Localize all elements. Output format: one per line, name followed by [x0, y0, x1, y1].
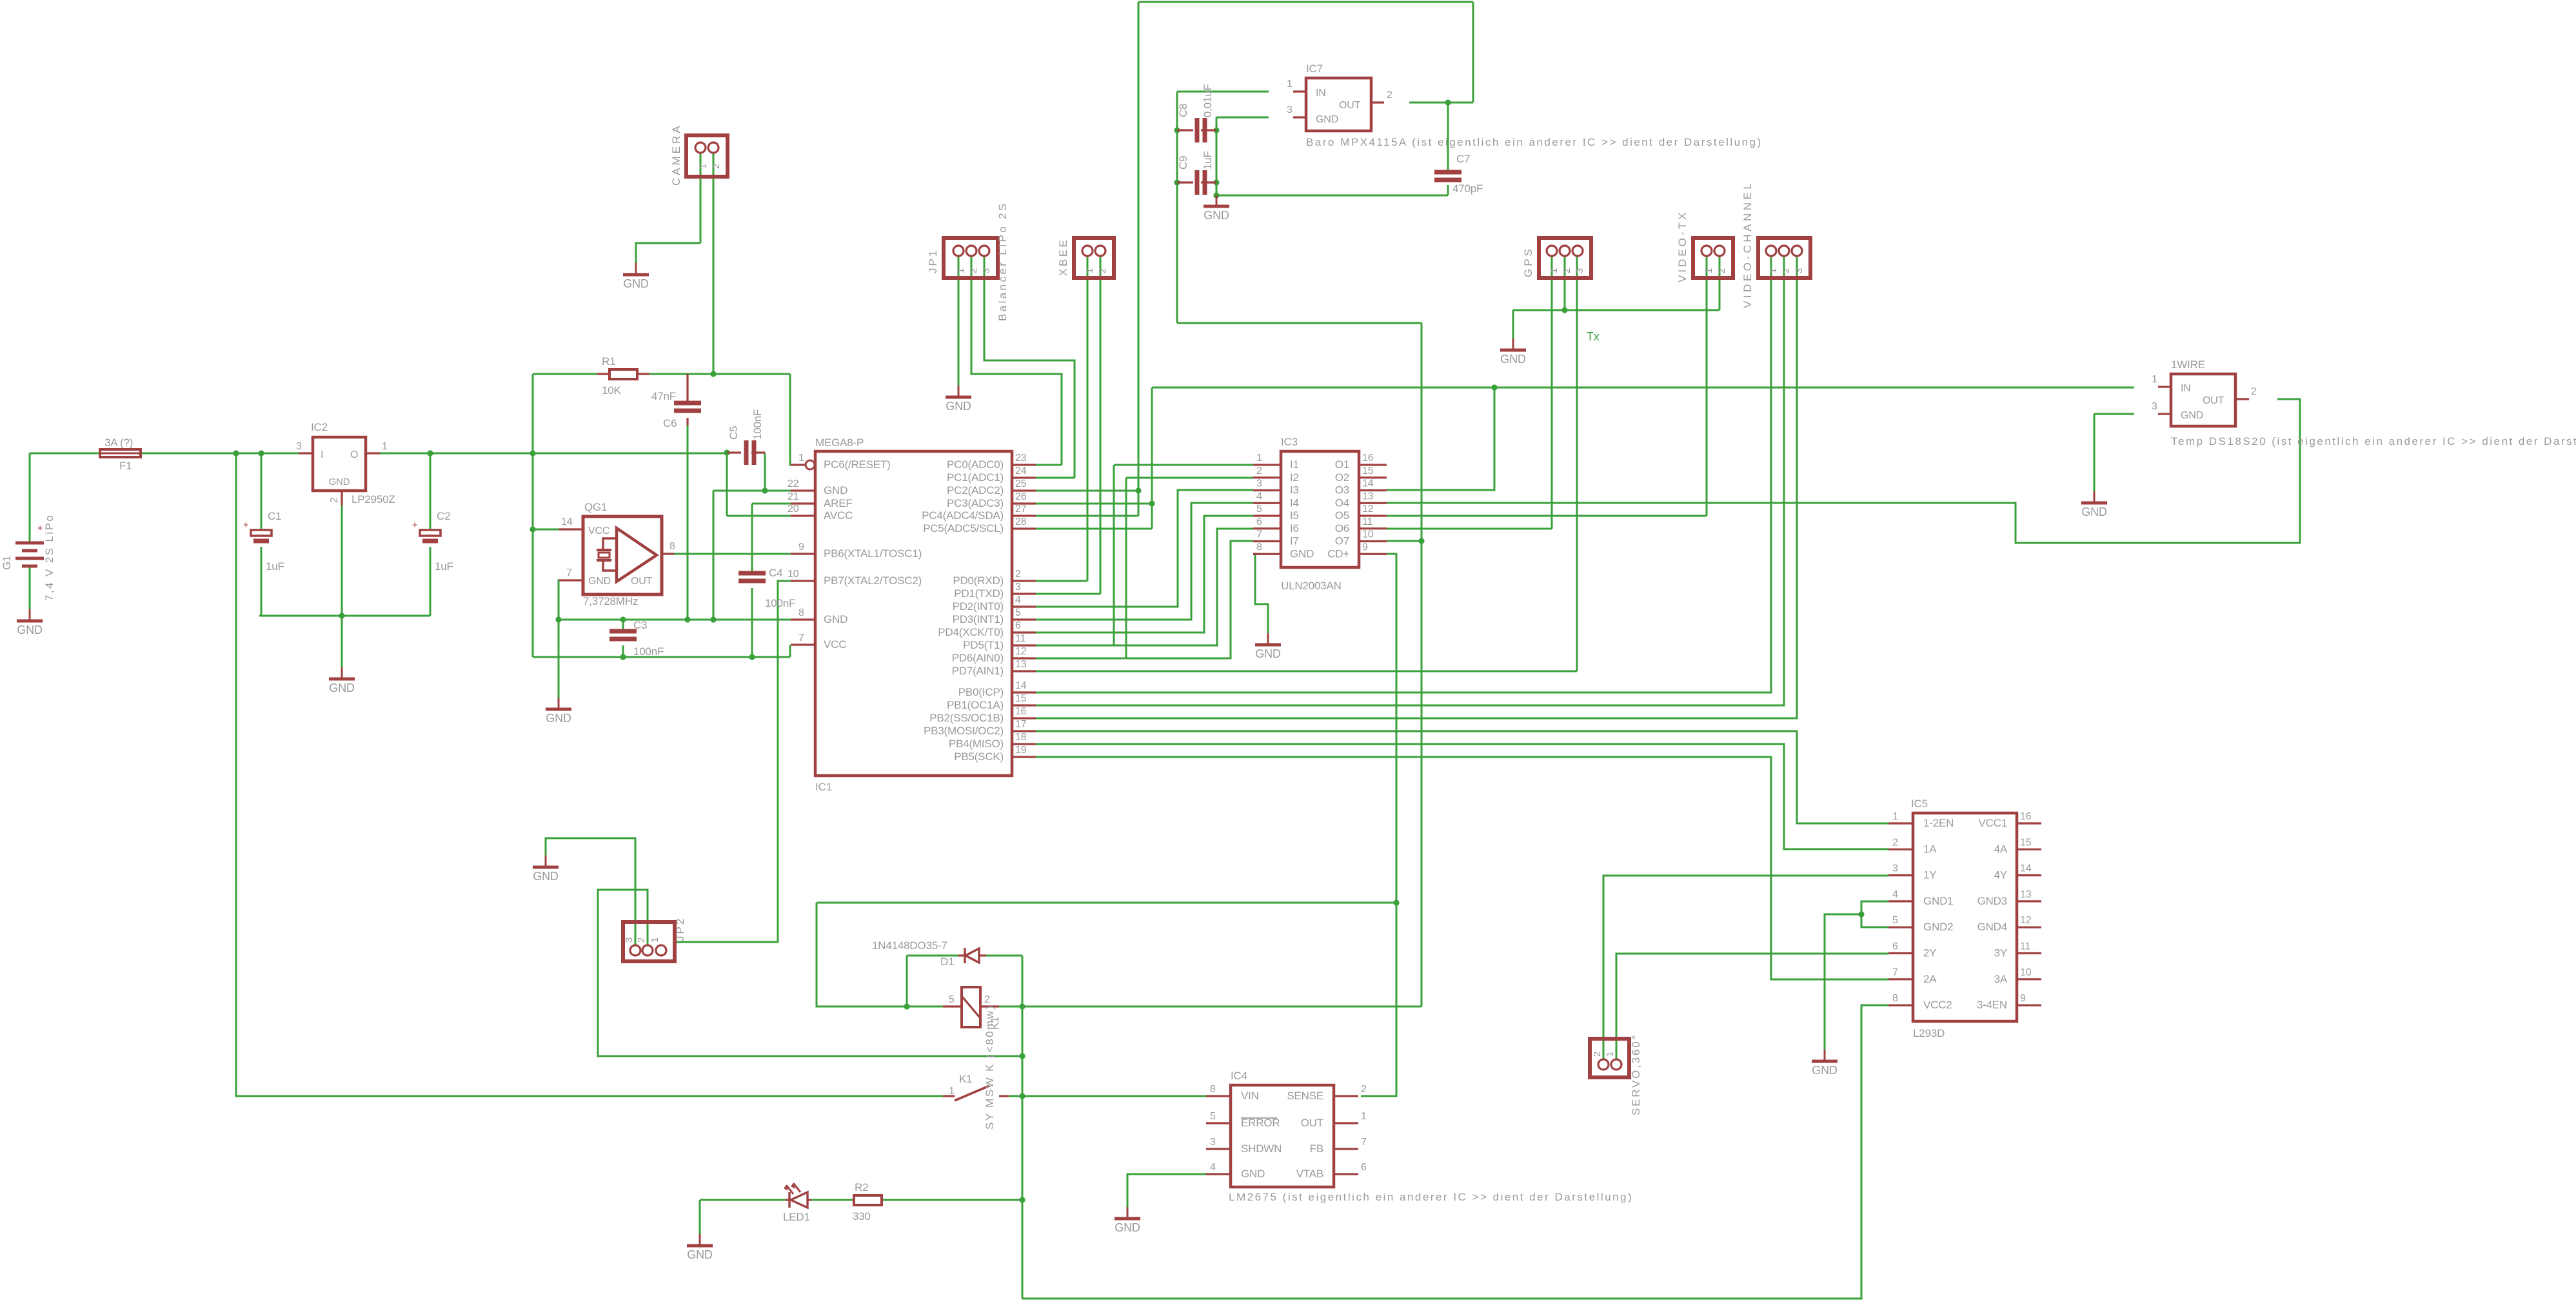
wire C6 top lead	[687, 374, 689, 402]
wire IC5 1Y to SERVO.2	[1603, 876, 1888, 1059]
svg-text:Baro MPX4115A (ist eigentlich: Baro MPX4115A (ist eigentlich ein andere…	[1306, 136, 1763, 148]
wire D1 right vertical	[1022, 956, 1024, 1006]
svg-text:3: 3	[1015, 582, 1021, 593]
IC1 pin 11 PD5(T1)	[1012, 644, 1036, 646]
ground below LED1	[687, 1234, 713, 1261]
svg-text:1: 1	[949, 1086, 955, 1097]
junction rail/C2	[427, 450, 433, 456]
svg-text:3A (?): 3A (?)	[104, 437, 133, 449]
wire long rail to switch K1	[236, 453, 943, 1096]
wire IC4 GND down	[1127, 1174, 1206, 1207]
IC1 pin 14 PB0(ICP)	[1012, 691, 1036, 693]
connector JP2	[623, 922, 675, 961]
IC5 pin 12 GND4	[2017, 927, 2041, 928]
wire LED1 to R2	[807, 1199, 854, 1201]
wire GND to LED1	[700, 1199, 786, 1201]
svg-text:IC4: IC4	[1231, 1070, 1247, 1082]
junction JP2.2/V1585	[1019, 1053, 1025, 1059]
svg-text:PC0(ADC0): PC0(ADC0)	[947, 458, 1004, 471]
svg-text:SHDWN: SHDWN	[1241, 1143, 1282, 1155]
svg-text:9: 9	[798, 542, 804, 553]
svg-text:IC7: IC7	[1306, 63, 1323, 75]
svg-text:14: 14	[561, 516, 573, 527]
svg-text:VIDEO-CHANNEL: VIDEO-CHANNEL	[1741, 181, 1754, 308]
svg-text:VIN: VIN	[1241, 1090, 1259, 1102]
svg-text:MEGA8-P: MEGA8-P	[815, 437, 864, 449]
wire O7 to relay vertical	[1387, 540, 1422, 542]
IC3 pin 5 I5	[1253, 515, 1281, 516]
ground below IC3	[1255, 633, 1281, 660]
svg-text:1WIRE: 1WIRE	[2171, 358, 2205, 371]
svg-text:D1: D1	[940, 956, 954, 968]
IC1 pin 7 VCC	[791, 643, 815, 645]
svg-text:13: 13	[1362, 491, 1374, 502]
svg-text:I7: I7	[1290, 535, 1299, 547]
svg-text:PD4(XCK/T0): PD4(XCK/T0)	[938, 626, 1004, 638]
wire IC5 GND down	[1825, 914, 1861, 1050]
wire C8/C9 left rail	[1176, 92, 1178, 323]
wire PC2 row	[1036, 490, 1138, 492]
wire PB4 to IC5 1A	[1036, 744, 1888, 849]
wire PD3 to I4	[1036, 503, 1253, 620]
svg-text:PB6(XTAL1/TOSC1): PB6(XTAL1/TOSC1)	[824, 547, 922, 560]
svg-text:GND: GND	[1255, 647, 1281, 660]
wire R1 left to VCC rail	[533, 373, 597, 375]
junction PC3/V1786	[1149, 500, 1154, 506]
IC4 pin 4 GND	[1206, 1173, 1231, 1175]
svg-text:13: 13	[2020, 889, 2032, 900]
wire PC4 row	[1036, 515, 1138, 517]
junction O7/V2204	[1418, 538, 1424, 544]
svg-text:2: 2	[968, 268, 979, 273]
svg-text:2: 2	[711, 164, 722, 169]
IC3 pin 4 I4	[1253, 502, 1281, 504]
svg-text:3: 3	[1256, 478, 1262, 489]
wire GND link GPS to VIDEO-TX	[1513, 309, 1719, 311]
wire pin22 jog down	[713, 491, 715, 620]
svg-text:3: 3	[1794, 268, 1805, 273]
svg-text:2: 2	[1015, 569, 1021, 580]
svg-text:16: 16	[1362, 453, 1374, 464]
svg-text:+: +	[243, 520, 249, 531]
wire GPS.1 down	[1551, 255, 1553, 529]
svg-text:R2: R2	[855, 1181, 868, 1193]
capacitor C1	[243, 520, 272, 541]
junction H1019/C3 bottom	[620, 654, 626, 660]
wire R2 to V1585	[882, 1199, 1022, 1201]
svg-text:3: 3	[624, 937, 635, 943]
ground below IC5	[1812, 1050, 1838, 1077]
svg-text:VCC2: VCC2	[1923, 999, 1952, 1011]
junction gnd rail/IC2 gnd	[339, 613, 344, 618]
svg-text:1uF: 1uF	[266, 560, 284, 573]
svg-text:1: 1	[1084, 268, 1095, 273]
C8 left lead	[1177, 129, 1193, 131]
wire PB0 to VIDEO-CHANNEL.1	[1036, 255, 1771, 692]
wire rail to V2204	[1177, 322, 1422, 324]
wire GND row H961	[559, 619, 791, 621]
wire PD2 to I3	[1036, 490, 1253, 607]
IC1 pin 9 PB6(XTAL1/TOSC1)	[791, 553, 815, 554]
IC3 pin 3 I3	[1253, 489, 1281, 491]
junction V1585/R2 row	[1019, 1197, 1025, 1202]
svg-text:7: 7	[1892, 967, 1898, 978]
wire PB7 to JP2.1	[675, 581, 791, 942]
IC4 pin 7 FB	[1334, 1148, 1358, 1150]
svg-text:11: 11	[1015, 633, 1026, 644]
svg-text:+: +	[412, 520, 418, 531]
svg-text:GND3: GND3	[1977, 895, 2007, 907]
resistor R1 10K	[609, 369, 637, 379]
svg-text:1: 1	[1361, 1111, 1367, 1122]
svg-text:2: 2	[1361, 1084, 1367, 1095]
wire I2 vertical	[1125, 478, 1127, 658]
svg-text:11: 11	[2020, 941, 2031, 952]
wire IC2 GND down	[341, 505, 343, 667]
svg-text:VIDEO-TX: VIDEO-TX	[1676, 210, 1689, 282]
wire XBEE.1 down	[1087, 255, 1089, 581]
junction coil/D1 left	[904, 1003, 909, 1009]
wire PD5 to I6	[1036, 529, 1253, 645]
wire 1WIRE data vertical	[1151, 388, 1153, 529]
svg-text:PD1(TXD): PD1(TXD)	[954, 587, 1004, 600]
junction H1019/C4 bottom	[749, 654, 755, 660]
wire top loop horizontal	[1138, 1, 1473, 3]
svg-text:PC6(/RESET): PC6(/RESET)	[824, 458, 891, 471]
svg-text:1Y: 1Y	[1923, 869, 1936, 881]
svg-text:28: 28	[1015, 516, 1027, 527]
wire C1-C2 gnd rail	[259, 615, 430, 617]
sensor 1WIRE Temp DS18S20	[2171, 374, 2235, 426]
wire VIDEO-TX.2 down	[1719, 255, 1721, 310]
svg-text:0,01uF: 0,01uF	[1202, 84, 1214, 117]
svg-text:4: 4	[1210, 1162, 1216, 1173]
svg-text:3A: 3A	[1994, 973, 2008, 985]
svg-text:I1: I1	[1290, 458, 1299, 471]
svg-text:2: 2	[329, 497, 340, 503]
wire V1585 down	[1022, 1006, 1024, 1299]
junction H961/pin22 jog	[710, 616, 716, 622]
wire CAMERA.2 down to R1 net	[713, 153, 715, 374]
svg-text:2: 2	[984, 994, 990, 1005]
wire C1 bottom lead	[261, 547, 263, 616]
svg-text:O1: O1	[1335, 458, 1349, 471]
junction PC2/V1765	[1135, 487, 1141, 493]
svg-text:4A: 4A	[1994, 843, 2008, 855]
svg-text:LED1: LED1	[783, 1211, 810, 1223]
wire top loop right vertical	[1472, 2, 1474, 103]
junction V1585/switch row	[1019, 1093, 1025, 1099]
IC3 pin 13 O4	[1359, 502, 1387, 504]
svg-text:3: 3	[1287, 104, 1293, 115]
IC5 pin 8 VCC2	[1888, 1004, 1913, 1006]
svg-text:17: 17	[1015, 719, 1027, 730]
svg-text:PB0(ICP): PB0(ICP)	[958, 686, 1004, 698]
IC5 pin 11 3Y	[2017, 952, 2041, 954]
IC1 pin 18 PB4(MISO)	[1012, 743, 1036, 745]
wire switch to IC4 VIN	[1009, 1095, 1206, 1097]
svg-text:1: 1	[1287, 79, 1293, 90]
C8 right lead	[1201, 129, 1216, 131]
svg-text:15: 15	[1362, 466, 1374, 476]
svg-text:4Y: 4Y	[1994, 869, 2007, 881]
svg-text:PC2(ADC2): PC2(ADC2)	[947, 484, 1004, 496]
svg-text:2: 2	[1892, 837, 1898, 848]
wire PC5 row	[1036, 528, 1152, 530]
svg-text:PD2(INT0): PD2(INT0)	[953, 600, 1004, 613]
svg-text:7: 7	[1256, 529, 1262, 540]
junction pin22 row/C5 right	[762, 487, 768, 493]
svg-text:18: 18	[1015, 732, 1027, 743]
junction rail/C1	[258, 450, 264, 456]
svg-text:3-4EN: 3-4EN	[1977, 999, 2007, 1011]
svg-text:VCC: VCC	[588, 525, 609, 536]
svg-text:12: 12	[1015, 646, 1027, 657]
IC3 pin 9 CD+	[1359, 553, 1387, 555]
wire 1WIRE data line long	[1152, 387, 2134, 389]
junction rail/C9	[1174, 179, 1180, 185]
wire battery - to GND	[29, 565, 31, 609]
C5 right lead	[751, 451, 765, 453]
svg-text:330: 330	[853, 1210, 871, 1222]
wire VCC to QG1 pin14	[533, 529, 559, 531]
wire PD6 to I7	[1036, 541, 1253, 658]
svg-text:20: 20	[788, 504, 799, 515]
svg-text:GND: GND	[1290, 547, 1314, 560]
wire IC5 GND1-GND2 tie	[1861, 901, 1888, 927]
svg-text:FB: FB	[1310, 1143, 1323, 1155]
IC5 pin 14 4Y	[2017, 874, 2041, 876]
IC5 pin 15 4A	[2017, 849, 2041, 850]
svg-text:GND: GND	[1241, 1168, 1265, 1180]
wire I1 vertical	[1113, 465, 1115, 645]
wire PD7 to GPS.3	[1036, 671, 1577, 672]
ground below JP2	[533, 856, 559, 883]
svg-text:GND: GND	[824, 484, 847, 496]
svg-text:O4: O4	[1335, 496, 1349, 509]
IC1 pin 20 AVCC	[791, 515, 815, 516]
junction GPS.2/H481	[1561, 307, 1567, 313]
wire VCC jog to IC1 pin7	[789, 645, 791, 657]
wire 1WIRE GND row	[2094, 413, 2134, 415]
IC1 pin 2 PD0(RXD)	[1012, 580, 1036, 582]
capacitor C5 100nF	[746, 440, 754, 465]
junction OUT/C7	[1445, 99, 1451, 105]
svg-text:8: 8	[1256, 542, 1262, 553]
svg-text:IC1: IC1	[815, 781, 832, 793]
svg-text:16: 16	[2020, 811, 2032, 822]
svg-text:19: 19	[1015, 745, 1027, 756]
capacitor C2	[412, 520, 441, 541]
svg-text:GND: GND	[2181, 410, 2203, 421]
wire C2 bottom lead	[430, 547, 431, 616]
wire C2 top lead	[430, 453, 431, 529]
IC5 pin 2 1A	[1888, 849, 1913, 850]
wire AREF down to C4	[751, 504, 753, 573]
svg-text:7: 7	[566, 567, 572, 578]
svg-text:GND: GND	[588, 576, 611, 587]
svg-text:GND: GND	[687, 1248, 713, 1261]
wire IC1 pin22 GND row	[713, 490, 791, 492]
IC3 pin 14 O3	[1359, 489, 1387, 491]
wire O4 to 1WIRE OUT	[1387, 399, 2300, 543]
capacitor C9 1uF	[1197, 170, 1205, 195]
svg-text:I4: I4	[1290, 496, 1299, 509]
wire V2204 C8-rail to relay	[1421, 323, 1423, 1006]
switch contact K1 (SY MSW K)	[943, 1095, 955, 1097]
svg-text:IC3: IC3	[1281, 436, 1298, 448]
svg-text:23: 23	[1015, 453, 1027, 464]
svg-text:PD0(RXD): PD0(RXD)	[953, 574, 1004, 587]
fuse F1	[100, 449, 141, 457]
svg-text:7,4 V 2S LiPo: 7,4 V 2S LiPo	[43, 514, 55, 601]
svg-text:PB7(XTAL2/TOSC2): PB7(XTAL2/TOSC2)	[824, 574, 922, 587]
wire 1WIRE GND down	[2094, 414, 2095, 491]
junction right rail/C9	[1213, 179, 1219, 185]
IC3 pin 16 O1	[1359, 464, 1387, 466]
IC1 pin 10 PB7(XTAL2/TOSC2)	[791, 580, 815, 582]
IC5 pin 6 2Y	[1888, 952, 1913, 954]
capacitor C4 100nF	[738, 573, 766, 581]
capacitor C7 470pF	[1434, 172, 1461, 180]
svg-text:O: O	[350, 449, 358, 460]
IC1 pin 27 PC4(ADC4/SDA)	[1012, 515, 1036, 516]
svg-text:7,3728MHz: 7,3728MHz	[583, 595, 638, 607]
svg-text:OUT: OUT	[631, 576, 653, 587]
svg-text:C6: C6	[663, 417, 677, 429]
wire from D1 cathode	[986, 955, 1022, 957]
IC3 pin 10 O7	[1359, 540, 1387, 542]
svg-text:L293D: L293D	[1913, 1027, 1945, 1039]
wire to IC3 I2	[1126, 477, 1253, 479]
svg-text:1-2EN: 1-2EN	[1923, 817, 1954, 829]
IC3 pin 8 GND	[1253, 553, 1281, 555]
connector JP1	[944, 238, 998, 278]
svg-text:GND: GND	[17, 623, 43, 636]
wire VCC2 bottom rail	[1022, 1005, 1888, 1299]
wire JP1.2 to PC0	[971, 255, 1062, 465]
svg-text:470pF: 470pF	[1452, 182, 1483, 195]
svg-text:2: 2	[1256, 466, 1262, 476]
junction rail/V366	[233, 450, 239, 456]
svg-text:O5: O5	[1335, 509, 1349, 522]
sensor IC7 Baro MPX4115A	[1306, 78, 1371, 131]
wire JP2.2 to relay net	[598, 890, 1022, 1056]
IC4 pin 8 VIN	[1206, 1095, 1231, 1097]
junction H961/C3 top	[620, 616, 626, 622]
svg-text:3: 3	[1574, 268, 1585, 273]
svg-text:14: 14	[2020, 863, 2032, 874]
svg-text:12: 12	[1362, 504, 1374, 515]
wire CAMERA.1 down	[700, 153, 702, 243]
IC5 pin 16 VCC1	[2017, 822, 2041, 824]
svg-text:GND: GND	[2081, 505, 2107, 518]
svg-text:Tx: Tx	[1587, 330, 1600, 343]
svg-text:PB3(MOSI/OC2): PB3(MOSI/OC2)	[924, 725, 1004, 737]
svg-text:2: 2	[1097, 268, 1108, 273]
IC1 pin 25 PC2(ADC2)	[1012, 489, 1036, 491]
svg-text:1: 1	[1892, 811, 1898, 822]
wire PB3 to IC5 1-2EN	[1036, 731, 1888, 823]
svg-text:PC1(ADC1): PC1(ADC1)	[947, 471, 1004, 484]
svg-text:PB1(OC1A): PB1(OC1A)	[947, 699, 1004, 711]
svg-text:SENSE: SENSE	[1287, 1090, 1323, 1102]
wire JP1.1 down to GND	[958, 255, 960, 386]
svg-text:47nF: 47nF	[651, 390, 676, 402]
wire LED GND drop	[699, 1200, 701, 1234]
svg-text:GND: GND	[1204, 209, 1229, 222]
svg-text:I5: I5	[1290, 509, 1299, 522]
wire JP2.3 to GND	[546, 838, 635, 946]
wire to D1 anode	[907, 955, 958, 957]
svg-text:SERVO,360°: SERVO,360°	[1630, 1034, 1642, 1115]
IC1 pin 24 PC1(ADC1)	[1012, 476, 1036, 478]
svg-text:21: 21	[788, 491, 799, 502]
svg-text:O2: O2	[1335, 471, 1349, 484]
svg-text:GND: GND	[1812, 1064, 1838, 1077]
wire QG1 OUT to PB6	[674, 553, 791, 555]
svg-text:1uF: 1uF	[435, 560, 453, 573]
IC1 pin 19 PB5(SCK)	[1012, 756, 1036, 758]
ground below G1	[17, 609, 43, 636]
svg-text:OUT: OUT	[1339, 100, 1361, 111]
svg-text:PD3(INT1): PD3(INT1)	[953, 613, 1004, 625]
regulator IC4 LM2675	[1231, 1085, 1334, 1187]
svg-text:24: 24	[1015, 466, 1027, 476]
IC1 pin 13 PD7(AIN1)	[1012, 670, 1036, 672]
svg-text:1: 1	[649, 937, 660, 943]
IC1 pin 26 PC3(ADC3)	[1012, 502, 1036, 504]
svg-text:+: +	[37, 523, 43, 534]
wire VIDEO-TX.1 down	[1706, 255, 1708, 516]
IC4 pin 6 VTAB	[1334, 1173, 1358, 1175]
wire CAMERA.1 to GND	[636, 243, 700, 263]
wire PC0 stub run	[1036, 464, 1062, 466]
IC3 pin 1 I1	[1253, 464, 1281, 466]
wire C3 bottom lead	[622, 645, 624, 657]
svg-text:OUT: OUT	[2203, 395, 2224, 406]
wire to IC7 GND	[1216, 117, 1269, 119]
svg-text:CD+: CD+	[1327, 547, 1349, 560]
wire PB1 to VIDEO-CHANNEL.2	[1036, 255, 1784, 705]
connector XBEE	[1074, 238, 1114, 278]
wire VCC bottom rail H1019	[533, 656, 790, 658]
wire coil pin2 to O7 vertical	[999, 1006, 1422, 1008]
wire PD0 RXD to XBEE.1	[1036, 580, 1087, 582]
IC3 pin 11 O6	[1359, 527, 1387, 529]
IC1 pin 8 GND	[791, 618, 815, 620]
junction H961/C6	[684, 616, 690, 622]
IC1 pin 22 GND	[791, 489, 815, 491]
svg-text:IC5: IC5	[1911, 798, 1928, 810]
IC1 pin 28 PC5(ADC5/SCL)	[1012, 527, 1036, 529]
svg-text:25: 25	[1015, 478, 1027, 489]
microcontroller IC1 MEGA8-P	[815, 451, 1012, 776]
wire O3 up to data line	[1387, 388, 1494, 490]
svg-text:JP2: JP2	[674, 917, 686, 941]
svg-text:5: 5	[1015, 607, 1021, 618]
svg-text:1: 1	[1605, 1052, 1616, 1057]
svg-text:PD5(T1): PD5(T1)	[963, 639, 1004, 651]
driver IC3 ULN2003AN	[1281, 451, 1359, 567]
svg-text:GND: GND	[946, 400, 971, 413]
IC1 pin 4 PD2(INT0)	[1012, 605, 1036, 607]
svg-text:2A: 2A	[1923, 973, 1937, 985]
svg-text:2: 2	[1592, 1052, 1603, 1057]
svg-text:ULN2003AN: ULN2003AN	[1281, 580, 1342, 592]
wire battery+ to fuse F1	[30, 453, 99, 455]
svg-text:1N4148DO35-7: 1N4148DO35-7	[872, 939, 947, 952]
